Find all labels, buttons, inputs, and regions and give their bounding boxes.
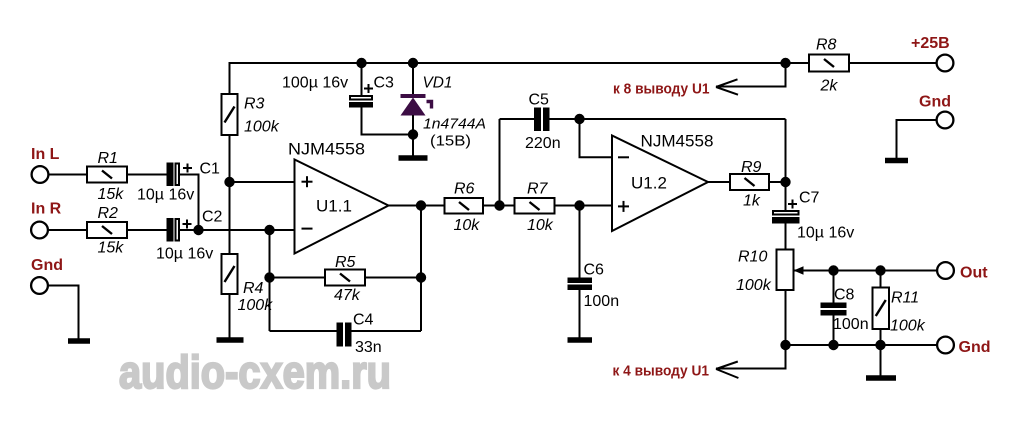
node U1.1 output junction bbox=[416, 200, 426, 210]
node R11 bottom junction bbox=[875, 340, 885, 350]
node C3 top junction bbox=[356, 58, 366, 68]
capacitor C7 bbox=[772, 182, 800, 249]
node R5 left junction bbox=[264, 272, 274, 282]
terminal +25B bbox=[911, 35, 953, 71]
svg-text:In R: In R bbox=[31, 201, 62, 218]
svg-text:C7: C7 bbox=[799, 190, 820, 207]
svg-text:audio-cxem.ru: audio-cxem.ru bbox=[119, 346, 391, 398]
svg-text:C6: C6 bbox=[584, 262, 605, 279]
ground (VD1) bbox=[399, 155, 428, 161]
svg-text:к 8 выводу U1: к 8 выводу U1 bbox=[613, 81, 710, 98]
svg-text:15k: 15k bbox=[98, 240, 125, 257]
terminal Gnd top right bbox=[919, 94, 953, 129]
ground (left) bbox=[68, 338, 90, 344]
wire C5 right to feedback node bbox=[550, 118, 786, 120]
node bottom rail junction bbox=[780, 340, 790, 350]
wire R8 to +25B bbox=[849, 62, 937, 64]
svg-text:R6: R6 bbox=[454, 181, 475, 198]
svg-text:+25B: +25B bbox=[911, 35, 950, 52]
terminal In R bbox=[31, 201, 62, 239]
terminal In L bbox=[31, 146, 60, 183]
resistor R6 bbox=[445, 198, 484, 214]
svg-text:C8: C8 bbox=[834, 287, 855, 304]
svg-text:10µ 16v: 10µ 16v bbox=[797, 225, 854, 242]
ground (C6) bbox=[568, 337, 593, 343]
wire bias to U1.1 noninverting input bbox=[230, 181, 295, 183]
svg-text:In L: In L bbox=[31, 146, 60, 163]
wire R4 to ground bbox=[229, 294, 231, 338]
wire C5 left lead bbox=[500, 118, 535, 120]
wire U1.1 output bbox=[389, 205, 445, 207]
capacitor C8 bbox=[821, 303, 847, 316]
svg-text:U1.2: U1.2 bbox=[631, 174, 667, 193]
wire feedback down to R9 node bbox=[785, 119, 787, 182]
svg-text:R11: R11 bbox=[891, 290, 919, 307]
svg-text:2k: 2k bbox=[820, 78, 839, 95]
wire C1 to node A bbox=[180, 175, 199, 231]
svg-text:100k: 100k bbox=[890, 318, 926, 335]
wire R9 to output node bbox=[769, 181, 786, 183]
node VD1 top junction bbox=[408, 58, 418, 68]
svg-text:R2: R2 bbox=[98, 205, 119, 222]
node A junction bbox=[193, 225, 203, 235]
capacitor C1 bbox=[167, 163, 193, 187]
wire C2 to U1.1 inverting input bbox=[180, 229, 295, 231]
wire Gnd top right bbox=[897, 120, 937, 158]
node R11 top junction bbox=[875, 265, 885, 275]
ground (R4) bbox=[217, 337, 244, 343]
node feedback junction bbox=[264, 225, 274, 235]
node R5 right junction bbox=[416, 272, 426, 282]
wire C3 bottom to VD1 bbox=[362, 134, 414, 136]
wire R2 to C2 bbox=[127, 229, 167, 231]
svg-text:C3: C3 bbox=[374, 75, 395, 92]
svg-text:10µ 16v: 10µ 16v bbox=[156, 246, 213, 263]
svg-text:(15B): (15B) bbox=[430, 134, 471, 150]
wire top rail bbox=[230, 62, 810, 64]
wire C8 top bbox=[833, 271, 835, 303]
wire C6 branch bbox=[579, 206, 581, 278]
svg-text:NJM4558: NJM4558 bbox=[288, 140, 365, 159]
svg-text:R9: R9 bbox=[741, 159, 762, 176]
svg-text:C2: C2 bbox=[202, 209, 223, 226]
svg-text:R3: R3 bbox=[244, 96, 265, 113]
svg-text:1n4744A: 1n4744A bbox=[423, 117, 486, 133]
resistor R7 bbox=[515, 198, 555, 214]
terminal Gnd left bbox=[31, 257, 63, 294]
node C5 junction bbox=[574, 114, 584, 124]
resistor R3 bbox=[222, 94, 238, 135]
op-amp U1.1 bbox=[295, 160, 389, 254]
node C8 top junction bbox=[828, 265, 838, 275]
capacitor C6 bbox=[568, 278, 593, 291]
svg-text:C5: C5 bbox=[529, 92, 550, 109]
svg-text:C4: C4 bbox=[353, 312, 374, 329]
wire In L to R1 bbox=[48, 174, 87, 176]
wire R11 bottom bbox=[880, 329, 882, 345]
op-amp U1.2 bbox=[612, 136, 708, 232]
wire U1.2 output bbox=[708, 181, 730, 183]
svg-text:100n: 100n bbox=[833, 316, 869, 333]
svg-text:47k: 47k bbox=[334, 287, 361, 304]
terminal Gnd bottom right bbox=[937, 337, 990, 356]
svg-text:10k: 10k bbox=[454, 217, 481, 234]
wire R11 top bbox=[880, 271, 882, 288]
svg-text:100k: 100k bbox=[736, 277, 772, 294]
capacitor C2 bbox=[167, 218, 192, 242]
svg-text:Gnd: Gnd bbox=[959, 339, 991, 356]
wire R7 to U1.2 noninverting input bbox=[555, 205, 613, 207]
wire C4 left bbox=[270, 330, 337, 332]
resistor R5 bbox=[325, 270, 365, 286]
wire R10 bottom bbox=[785, 290, 787, 345]
svg-text:1k: 1k bbox=[743, 193, 761, 210]
svg-text:R4: R4 bbox=[243, 280, 264, 297]
svg-text:Gnd: Gnd bbox=[31, 257, 63, 274]
resistor R11 bbox=[873, 288, 890, 330]
svg-text:220n: 220n bbox=[525, 135, 561, 152]
wire top rail to R3 bbox=[229, 62, 231, 94]
node R6 R7 junction bbox=[494, 200, 504, 210]
wire R5 left bbox=[270, 277, 326, 279]
svg-text:R1: R1 bbox=[98, 150, 118, 167]
svg-text:Out: Out bbox=[960, 265, 988, 282]
wire Gnd left bbox=[48, 286, 79, 339]
wire R1 to C1 bbox=[127, 174, 167, 176]
wire to U1.2 inverting input bbox=[580, 119, 613, 157]
wire R3 to R4 bbox=[229, 135, 231, 254]
wire C6 to ground bbox=[579, 290, 581, 338]
resistor R2 bbox=[87, 222, 127, 238]
svg-text:100n: 100n bbox=[584, 293, 620, 310]
svg-text:100µ 16v: 100µ 16v bbox=[282, 75, 348, 92]
svg-text:NJM4558: NJM4558 bbox=[641, 132, 714, 151]
wire C4 right bbox=[352, 330, 422, 332]
node VD1 bottom junction bbox=[408, 129, 418, 139]
node R9 output junction bbox=[780, 177, 790, 187]
wire к 4 выводу tap bbox=[716, 345, 786, 369]
capacitor C4 bbox=[337, 323, 352, 347]
resistor R8 bbox=[809, 55, 849, 72]
wire inverting node down bbox=[269, 230, 271, 331]
svg-text:U1.1: U1.1 bbox=[316, 197, 352, 216]
potentiometer R10 bbox=[777, 250, 804, 291]
capacitor C3 bbox=[349, 63, 373, 136]
svg-text:100k: 100k bbox=[244, 119, 280, 136]
wire R6 to R7 bbox=[483, 205, 515, 207]
arrow к 8 выводу bbox=[716, 79, 738, 94]
wire R10 wiper to Out bbox=[794, 270, 938, 272]
svg-text:R10: R10 bbox=[738, 249, 767, 266]
svg-text:Gnd: Gnd bbox=[919, 94, 951, 111]
wire In R to R2 bbox=[48, 229, 87, 231]
wire output down to feedback bbox=[420, 206, 422, 332]
diode VD1 bbox=[401, 62, 432, 156]
svg-text:R5: R5 bbox=[335, 254, 356, 271]
node bias junction bbox=[224, 177, 234, 187]
svg-text:VD1: VD1 bbox=[423, 75, 453, 92]
arrow к 4 выводу bbox=[716, 362, 738, 379]
wire R5 right bbox=[365, 277, 421, 279]
resistor R4 bbox=[222, 254, 238, 294]
svg-text:R8: R8 bbox=[816, 37, 837, 54]
wire C8 bottom bbox=[833, 316, 835, 346]
svg-text:к 4 выводу U1: к 4 выводу U1 bbox=[613, 363, 710, 380]
svg-text:100k: 100k bbox=[238, 297, 274, 314]
svg-text:10µ 16v: 10µ 16v bbox=[137, 187, 194, 204]
capacitor C5 bbox=[534, 108, 550, 132]
wire bottom rail bbox=[786, 344, 938, 346]
svg-text:R7: R7 bbox=[527, 181, 549, 198]
terminal Out bbox=[937, 262, 988, 281]
ground (top right) bbox=[885, 158, 908, 164]
svg-text:33n: 33n bbox=[355, 339, 382, 356]
wire R11 to ground bbox=[880, 345, 882, 376]
svg-text:15k: 15k bbox=[98, 186, 125, 203]
ground (R11) bbox=[866, 375, 896, 381]
svg-text:C1: C1 bbox=[200, 161, 221, 178]
resistor R9 bbox=[730, 174, 769, 190]
node C8 bottom junction bbox=[828, 340, 838, 350]
resistor R1 bbox=[87, 167, 127, 183]
node R7 output junction bbox=[574, 200, 584, 210]
node top rail R8 junction bbox=[780, 58, 790, 68]
wire к 8 выводу tap bbox=[716, 63, 786, 87]
wire C5 branch up bbox=[499, 119, 501, 206]
svg-text:10k: 10k bbox=[527, 217, 554, 234]
